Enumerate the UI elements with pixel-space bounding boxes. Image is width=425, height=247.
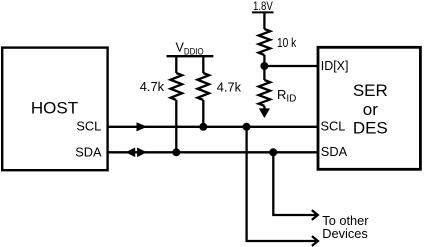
svg-text:SCL: SCL xyxy=(76,119,101,134)
svg-text:HOST: HOST xyxy=(31,98,78,117)
svg-text:4.7k: 4.7k xyxy=(140,79,165,94)
svg-text:1.8V: 1.8V xyxy=(253,0,273,13)
svg-text:Devices: Devices xyxy=(322,226,368,241)
svg-text:SDA: SDA xyxy=(321,144,348,159)
svg-text:DES: DES xyxy=(353,119,388,138)
svg-text:SER: SER xyxy=(353,81,388,100)
svg-text:or: or xyxy=(363,100,378,119)
svg-text:4.7k: 4.7k xyxy=(217,80,242,95)
svg-text:ID[X]: ID[X] xyxy=(321,58,349,73)
svg-text:SDA: SDA xyxy=(75,145,102,160)
svg-text:SCL: SCL xyxy=(321,119,346,134)
svg-text:10 k: 10 k xyxy=(277,35,297,50)
